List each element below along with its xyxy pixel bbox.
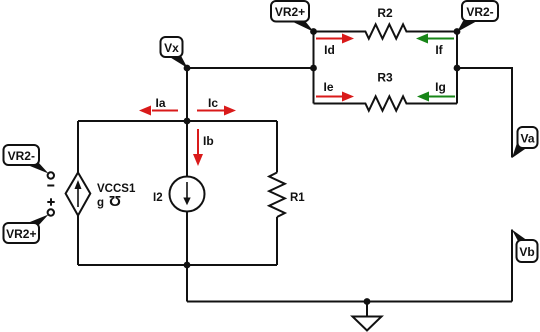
junction dot R2R3 top-left — [310, 28, 317, 35]
wire R1 branch bottom stub — [276, 217, 278, 265]
ground — [353, 302, 382, 331]
junction dot bottom rail at I2 branch — [184, 262, 191, 269]
wire R2R3 right vertical — [456, 32, 458, 104]
svg-text:If: If — [435, 43, 443, 57]
current arrow If — [416, 34, 454, 58]
wire R1 branch top stub — [276, 121, 278, 173]
svg-text:Ia: Ia — [155, 96, 165, 110]
current arrow Ic — [197, 96, 236, 116]
wire Vb riser — [511, 230, 513, 302]
node label Vb — [512, 230, 538, 263]
op VCCS1 dependent source diamond — [66, 173, 136, 216]
wire I2 branch top stub — [186, 121, 188, 177]
svg-text:Ic: Ic — [208, 96, 218, 110]
svg-text:Vb: Vb — [519, 245, 534, 259]
svg-text:g: g — [97, 197, 104, 209]
svg-text:Id: Id — [324, 43, 335, 57]
polarity plus sign — [47, 198, 54, 205]
resistor R3 — [314, 71, 458, 111]
wire I2 branch bottom stub — [186, 212, 188, 266]
wire left-network bottom rail — [78, 264, 277, 266]
current arrow Ib — [193, 129, 214, 166]
junction dot Vx node — [184, 65, 191, 72]
svg-text:VR2-: VR2- — [8, 149, 35, 163]
svg-text:Ig: Ig — [435, 80, 446, 94]
node label VR2- (top) — [457, 1, 498, 32]
node label VR2- (left) — [4, 145, 49, 174]
svg-text:Va: Va — [520, 132, 534, 146]
junction dot R2R3 top-right — [454, 28, 461, 35]
wire VCCS branch bottom stub — [77, 216, 79, 266]
node label VR2+ (top) — [271, 1, 314, 32]
junction dot ground tap — [364, 298, 371, 305]
current arrow Id — [316, 34, 354, 58]
wire R2R3 left vertical — [313, 32, 315, 104]
wire left-network top rail — [78, 120, 277, 122]
node label Va — [512, 127, 538, 158]
current source I2 — [153, 177, 205, 212]
current arrow Ie — [316, 80, 354, 102]
junction dot R2R3 mid-left — [310, 65, 317, 72]
svg-text:R1: R1 — [290, 192, 305, 204]
svg-text:Ω: Ω — [109, 192, 121, 209]
svg-text:Vx: Vx — [164, 41, 179, 55]
svg-text:Ie: Ie — [323, 80, 333, 94]
wire I2 branch down to ground rail — [186, 265, 188, 302]
terminal circle VCCS plus input — [48, 209, 54, 215]
polarity minus sign — [47, 185, 54, 187]
junction dot top rail at I2 branch — [184, 118, 191, 125]
current arrow Ig — [417, 80, 455, 102]
node label VR2+ (left) — [4, 215, 49, 244]
wire Vx node to R2R3 left (middle rail left segment) — [187, 67, 314, 69]
junction dot R2R3 mid-right — [454, 65, 461, 72]
wire Vx node down to left-network top rail — [186, 68, 188, 121]
current arrow Ia — [139, 96, 178, 116]
svg-text:I2: I2 — [153, 192, 163, 204]
svg-text:R3: R3 — [377, 71, 393, 85]
svg-text:VR2+: VR2+ — [275, 5, 305, 19]
wire R2R3 right to Va corner (middle rail right segment) — [457, 68, 512, 158]
wire ground rail (bottom) — [187, 301, 512, 303]
svg-text:R2: R2 — [377, 6, 393, 20]
svg-text:VR2-: VR2- — [466, 5, 493, 19]
svg-text:Ib: Ib — [203, 134, 214, 148]
resistor R2 — [314, 6, 458, 39]
terminal circle VCCS minus input — [48, 172, 54, 178]
wire VCCS branch top stub — [77, 121, 79, 173]
svg-text:VR2+: VR2+ — [6, 227, 36, 241]
resistor R1 — [269, 173, 305, 218]
node label Vx — [161, 37, 188, 68]
